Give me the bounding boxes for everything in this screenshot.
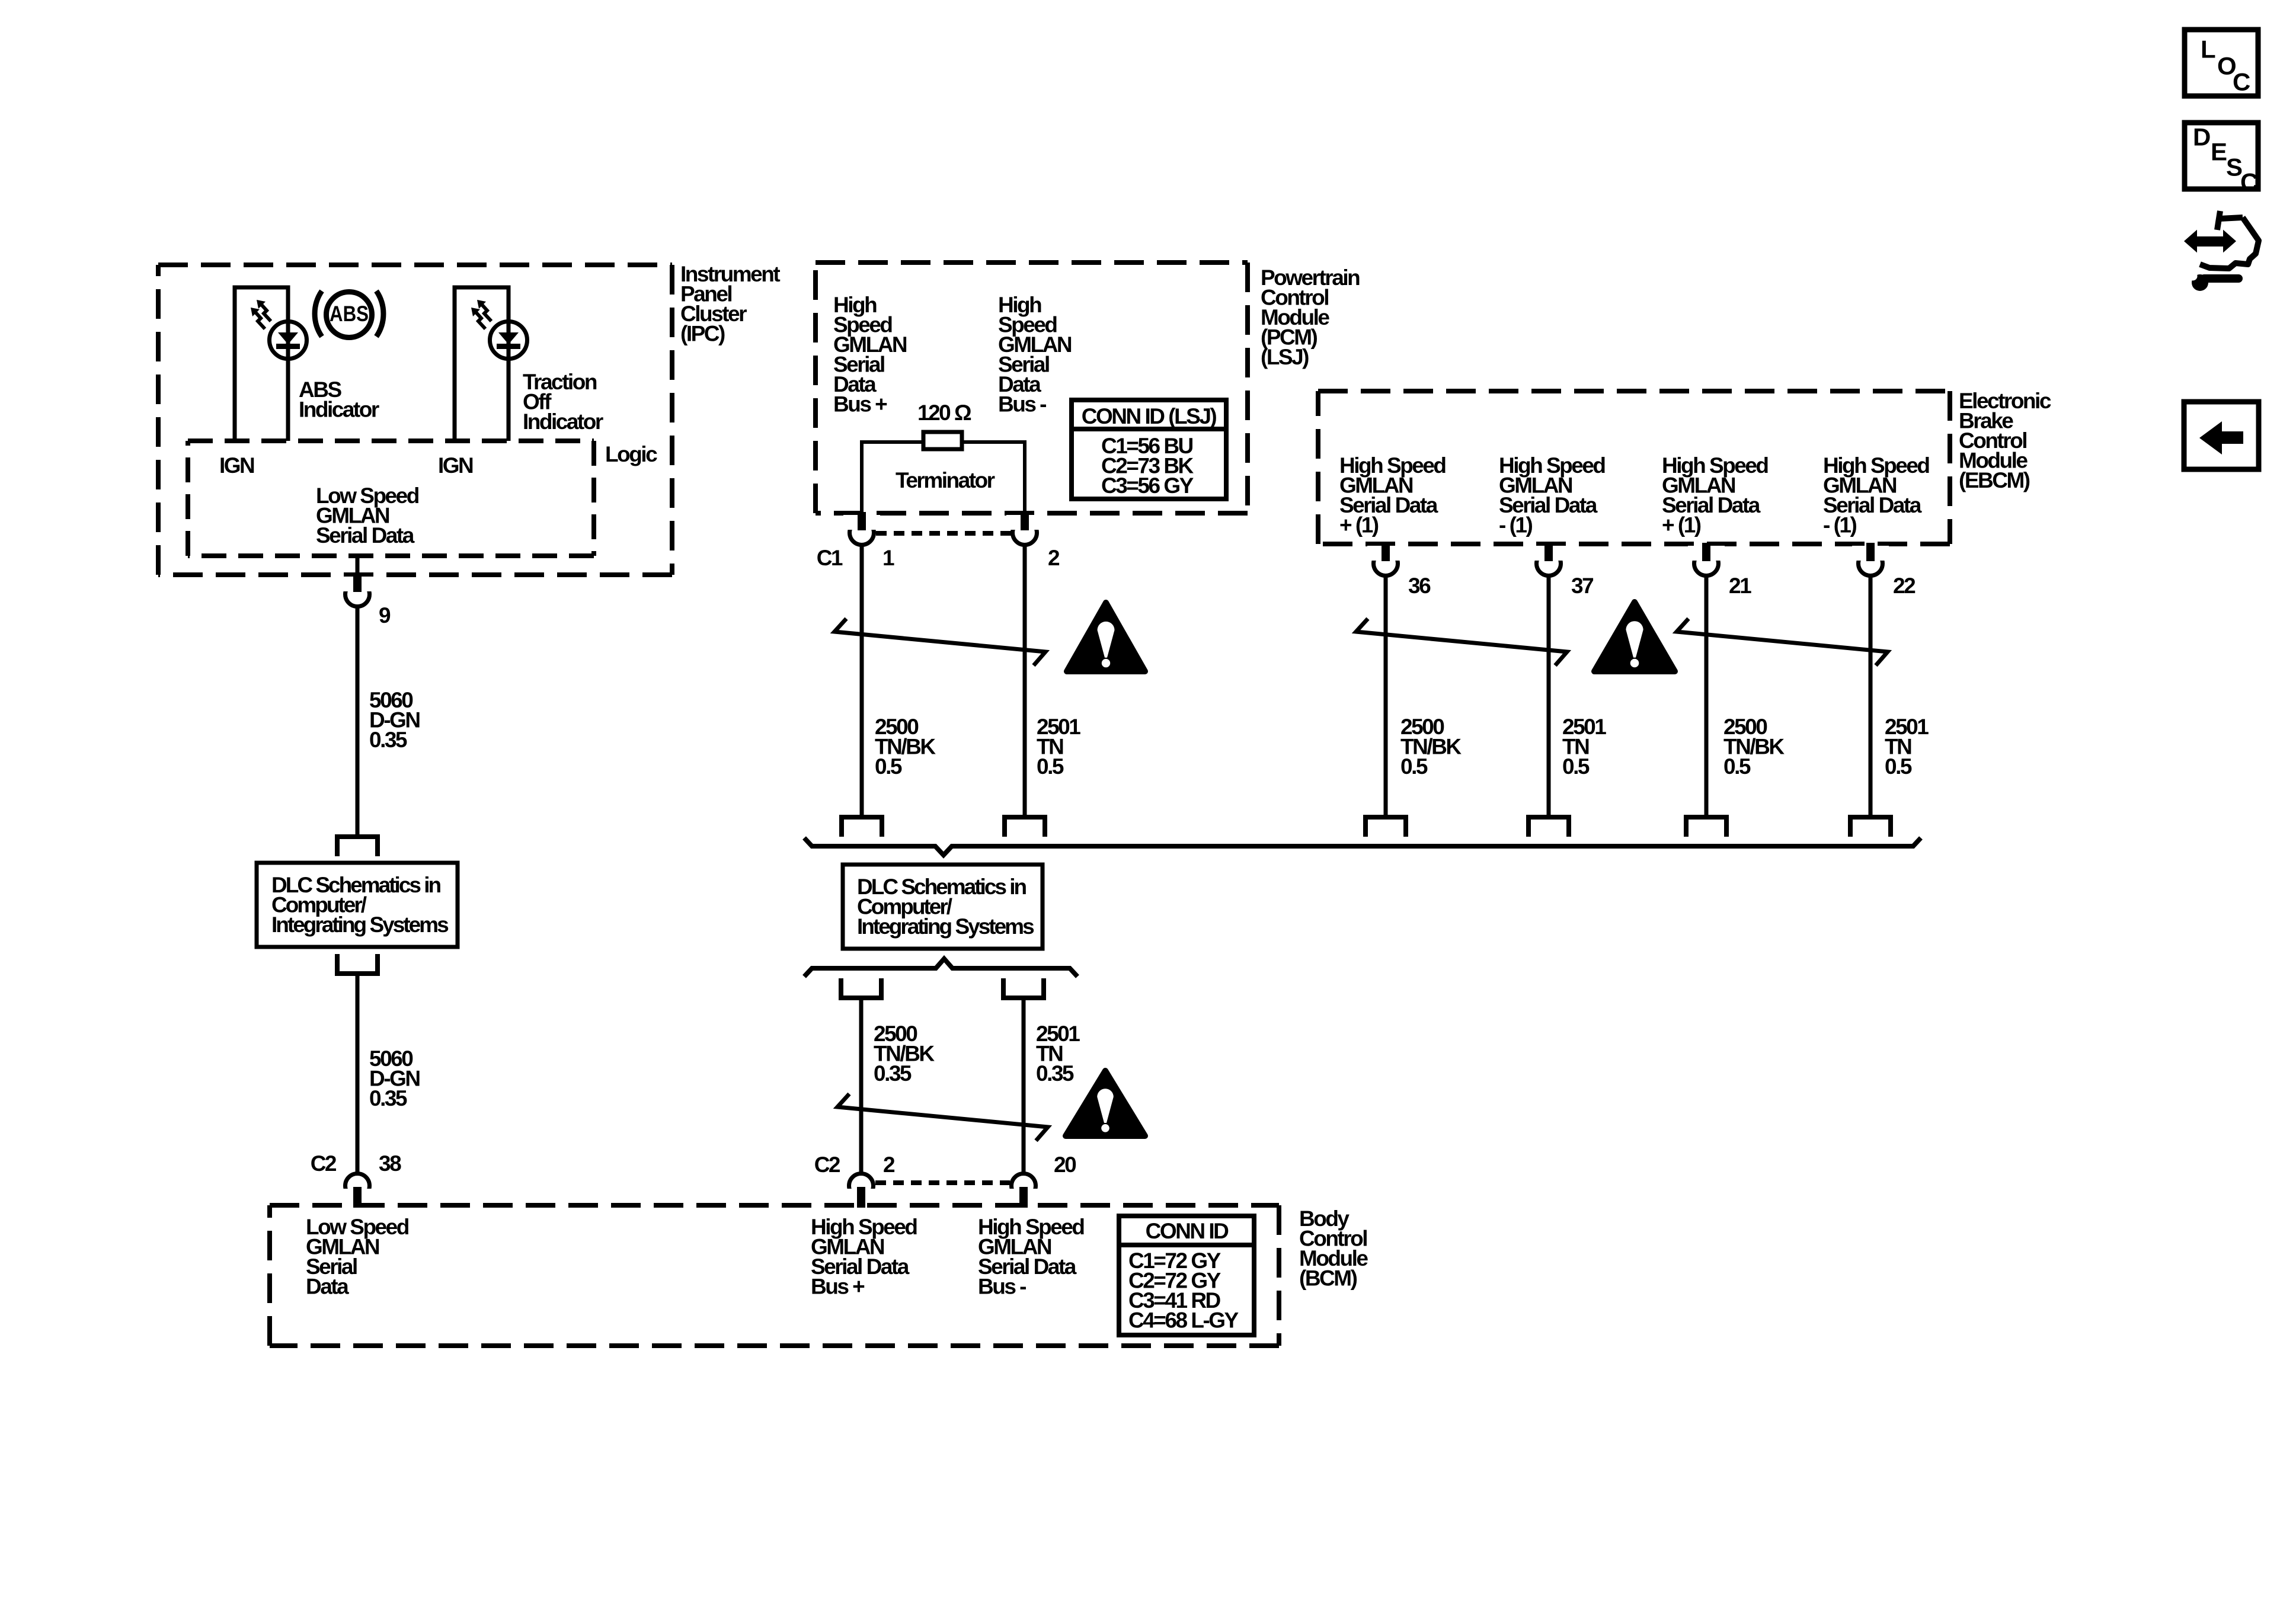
svg-text:ABS: ABS <box>330 302 369 326</box>
svg-text:20: 20 <box>1054 1153 1076 1177</box>
svg-text:120 Ω: 120 Ω <box>917 401 971 425</box>
svg-text:Logic: Logic <box>605 442 657 466</box>
svg-text:IGN: IGN <box>219 453 254 478</box>
svg-text:38: 38 <box>379 1151 401 1176</box>
svg-text:36: 36 <box>1408 574 1431 598</box>
svg-text:C2: C2 <box>311 1151 337 1176</box>
svg-text:9: 9 <box>379 603 391 628</box>
svg-text:L: L <box>2201 36 2216 63</box>
svg-text:2: 2 <box>883 1153 895 1177</box>
svg-text:C1=56 BUC2=73 BKC3=56 GY: C1=56 BUC2=73 BKC3=56 GY <box>1101 434 1194 498</box>
svg-text:37: 37 <box>1571 574 1593 598</box>
svg-text:CONN ID (LSJ): CONN ID (LSJ) <box>1082 404 1217 428</box>
svg-text:D: D <box>2193 123 2211 151</box>
svg-text:22: 22 <box>1893 574 1916 598</box>
svg-text:2: 2 <box>1048 546 1060 570</box>
svg-text:E: E <box>2211 138 2227 166</box>
svg-text:C2: C2 <box>814 1153 840 1177</box>
svg-text:CONN ID: CONN ID <box>1146 1219 1229 1243</box>
svg-text:Terminator: Terminator <box>896 468 995 492</box>
svg-text:IGN: IGN <box>438 453 473 478</box>
svg-text:1: 1 <box>882 546 894 570</box>
svg-text:C: C <box>2233 68 2250 96</box>
svg-text:21: 21 <box>1729 574 1751 598</box>
svg-text:C: C <box>2240 168 2258 196</box>
svg-text:C1: C1 <box>817 546 843 570</box>
